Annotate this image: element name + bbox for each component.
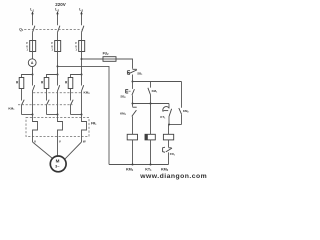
switch Q1 pole 3: [82, 26, 84, 33]
svg-text:Q1: Q1: [19, 27, 24, 32]
wire FU2 to SB1: [116, 59, 133, 69]
motor M 3~: [50, 156, 66, 172]
svg-text:KM1: KM1: [126, 168, 134, 173]
FR heater phase 2: [58, 115, 63, 156]
wire merge horizontal: [169, 124, 182, 126]
contact KM1 phase 1: [22, 100, 25, 115]
contact KM2 NC (interlock): [132, 104, 137, 135]
svg-text:KM2: KM2: [84, 90, 91, 95]
contact FR1 NC (thermal): [163, 147, 172, 164]
svg-text:KM2: KM2: [183, 109, 190, 114]
arrow L2: [56, 11, 58, 16]
wire to KM2 coil: [168, 125, 170, 135]
wire KT1 coil down: [150, 140, 152, 165]
wire L2 drop to switch: [57, 15, 59, 26]
pushbutton SB2 (start NO): [126, 82, 135, 96]
wire left rail: [58, 66, 110, 164]
wire U diagonal to motor: [33, 142, 53, 158]
contact KM1 aux (self hold): [148, 82, 151, 104]
wire KM2 coil to FR1: [168, 140, 170, 148]
contact KM2 phase 2: [58, 75, 60, 115]
contact KM2 aux (self hold): [179, 108, 182, 125]
contact KM1 phase 2: [47, 100, 50, 115]
wire phase 2 switch to fuse: [57, 32, 59, 40]
svg-text:KM1: KM1: [8, 107, 15, 112]
wire phase1 ammeter to node: [32, 67, 34, 75]
thermal relay FR dashed box: [26, 118, 89, 137]
svg-text:V: V: [59, 139, 61, 143]
wire phase2 fuse down: [57, 52, 59, 75]
svg-text:3~: 3~: [55, 165, 60, 169]
svg-text:www.diangon.com: www.diangon.com: [139, 173, 207, 180]
wire bottom rail: [109, 164, 169, 166]
wire KT1 branch top: [168, 104, 170, 108]
wire R2 bottom to contact: [46, 89, 48, 101]
svg-text:R: R: [16, 80, 19, 84]
node phase2-control junction: [57, 65, 59, 67]
node phase2 split: [57, 74, 59, 76]
fuse FU1 phase 3: [79, 41, 85, 52]
switch Q1 linkage dashed: [24, 29, 81, 31]
svg-text:KT1: KT1: [160, 115, 166, 120]
node left branch: [132, 103, 134, 105]
arrow L1: [31, 11, 33, 16]
svg-text:KM2: KM2: [120, 112, 127, 117]
wire L3 drop to switch: [81, 15, 83, 26]
contact KT1 delayed close: [163, 107, 172, 125]
wire jog back phase 3: [71, 114, 82, 116]
contact KM1 phase 3: [71, 100, 74, 115]
arrow L3: [80, 11, 82, 16]
svg-text:M: M: [56, 159, 60, 164]
coil KM2: [163, 134, 173, 140]
node rail top: [132, 81, 134, 83]
node phase1 split: [32, 74, 34, 76]
svg-text:FR1: FR1: [170, 152, 176, 157]
wire R3 bottom to contact: [70, 89, 72, 101]
node KM1 bottom: [132, 164, 134, 166]
fuse FU1 phase 2: [55, 41, 61, 52]
wire phase 1 switch to fuse: [32, 32, 34, 40]
resistor R phase 3: [68, 78, 73, 89]
pushbutton SB1 (stop NC): [127, 69, 136, 74]
fuse FU1 label (stacked) phase 1: [26, 41, 28, 51]
wire right rail upper: [181, 82, 183, 108]
fuse FU1 label (stacked) phase 2: [51, 41, 53, 51]
wire jog to R branch phase 1: [22, 75, 33, 78]
svg-text:W: W: [83, 139, 86, 143]
coil KM1: [127, 134, 137, 140]
svg-text:KT1: KT1: [145, 168, 152, 173]
wire W diagonal to motor: [64, 142, 81, 160]
KM1 row linkage dashed: [18, 104, 73, 106]
svg-text:FR1: FR1: [91, 121, 97, 126]
wire jog back phase 1: [22, 114, 33, 116]
svg-text:FU2: FU2: [103, 51, 110, 56]
wire phase3 fuse down: [81, 52, 83, 75]
fuse FU1 phase 1: [30, 41, 36, 52]
node rejoin phase2: [57, 114, 59, 116]
wire KM1 coil down: [132, 140, 134, 165]
wire phase1 fuse to ammeter: [32, 52, 34, 59]
FR heater phase 3: [82, 115, 87, 143]
wire phase 3 switch to fuse: [81, 32, 83, 40]
node KT1 bottom: [150, 164, 152, 166]
node phase3 split: [81, 74, 83, 76]
fuse FU1 label (stacked) phase 3: [75, 41, 77, 51]
svg-text:U: U: [34, 139, 36, 143]
resistor R phase 2: [44, 78, 49, 89]
wire L1 drop to switch: [32, 15, 34, 26]
contact KM2 phase 1: [33, 75, 35, 115]
resistor R phase 1: [19, 78, 24, 89]
switch Q1 pole 2: [58, 26, 60, 33]
wire jog to R branch phase 3: [71, 75, 82, 78]
ammeter A: [28, 59, 36, 67]
node merge: [168, 124, 170, 126]
node rejoin phase3: [81, 114, 83, 116]
svg-text:A: A: [31, 61, 34, 65]
contact KM2 phase 3: [82, 75, 84, 115]
node rejoin phase1: [32, 114, 34, 116]
wire top rail: [133, 81, 182, 83]
svg-text:220V: 220V: [55, 2, 66, 7]
KM2 row linkage dashed: [33, 92, 81, 94]
svg-text:SB2: SB2: [120, 94, 126, 99]
wire jog to R branch phase 2: [47, 75, 58, 78]
switch Q1 pole 1: [33, 26, 35, 33]
svg-text:KM2: KM2: [161, 168, 169, 173]
svg-text:SB1: SB1: [137, 72, 143, 77]
FR heater phase 1: [33, 115, 38, 143]
svg-text:R: R: [65, 80, 68, 84]
wire jog back phase 2: [47, 114, 58, 116]
node middle branch: [150, 103, 152, 105]
wire node line: [133, 103, 170, 105]
svg-text:R: R: [41, 80, 44, 84]
fuse FU2: [103, 57, 116, 62]
coil KT1: [145, 104, 155, 140]
svg-text:KM1: KM1: [152, 89, 159, 94]
wire R1 bottom to contact: [21, 89, 23, 101]
wire SB1 to rail: [132, 75, 134, 82]
wire SB2 down: [132, 95, 134, 103]
wire FU2 feed: [82, 58, 104, 60]
node phase3-FU2 junction: [81, 58, 83, 60]
